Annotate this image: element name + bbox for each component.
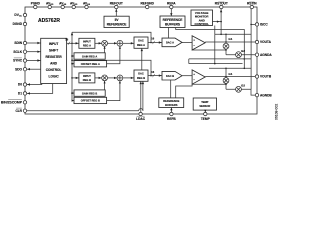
svg-text:16: 16 bbox=[151, 70, 154, 74]
svg-text:REFOUT: REFOUT bbox=[110, 2, 123, 6]
block U1 INPUT SHIFT REGISTER AND CONTROL LOGIC bbox=[41, 38, 67, 83]
block INPUT REG B bbox=[79, 73, 95, 83]
multiplier circle channel B bbox=[102, 75, 108, 81]
wire feedback tap channel B to amp inverting input bbox=[192, 83, 226, 85]
wire common data bus vertical rail with up arrow to readback line bbox=[71, 32, 73, 100]
pin AVDD (top, second) bbox=[72, 5, 75, 8]
wire AGNDA row bbox=[226, 54, 255, 56]
wire feedback tap channel A to amp inverting input bbox=[192, 49, 226, 51]
svg-text:OFFSET REG A: OFFSET REG A bbox=[81, 62, 100, 66]
wire adder to DAC REG B, arrow bbox=[123, 77, 134, 79]
svg-text:16: 16 bbox=[65, 37, 68, 41]
pin SDO (left) bbox=[23, 68, 26, 71]
block DAC REG B bbox=[134, 70, 148, 81]
wire amp B output row to VOUTB bbox=[205, 76, 255, 78]
svg-text:ISCC: ISCC bbox=[260, 23, 268, 27]
block INPUT REG A bbox=[79, 38, 95, 48]
pin DVCC (left) bbox=[23, 13, 26, 16]
wire 16-bit bus from shift register to INPUT REG A with slash and arrow bbox=[67, 42, 79, 44]
wire D1 from control logic, arrow toward pin bbox=[27, 84, 53, 94]
hop of CLR line over LDAC wire bbox=[139, 109, 143, 111]
svg-text:D0: D0 bbox=[18, 83, 22, 87]
pin VOUTA (right) bbox=[255, 40, 258, 43]
svg-text:SHIFT: SHIFT bbox=[49, 49, 58, 53]
wire amp A output row to VOUTA bbox=[205, 41, 255, 43]
svg-text:AVSS: AVSS bbox=[59, 2, 67, 7]
wire GAIN REG A up to multiplier, arrow up bbox=[104, 46, 106, 53]
svg-text:CLR: CLR bbox=[15, 109, 22, 113]
resistor G2 (channel A) bbox=[236, 52, 242, 58]
pin D0 (left) bbox=[23, 83, 26, 86]
wire CLR line along bottom to DAC REG B, arrow up bbox=[27, 110, 139, 112]
wire channel A top rail bbox=[215, 33, 252, 35]
svg-text:DAC: DAC bbox=[138, 39, 144, 43]
wire bus rail to INPUT REG B, arrow bbox=[72, 77, 79, 79]
svg-text:GAIN REG A: GAIN REG A bbox=[82, 54, 97, 58]
block VOLTAGE MONITOR AND CONTROL bbox=[191, 10, 213, 26]
wire LDAC up to DAC REG B, arrow up, with hop over CLR line bbox=[140, 81, 142, 112]
svg-text:G1: G1 bbox=[228, 72, 232, 76]
block OFFSET REG B bbox=[74, 97, 107, 103]
wire reference buffers to amp A positive network bbox=[176, 28, 245, 69]
wire adder to DAC REG A, arrow bbox=[123, 42, 134, 44]
DAC A symbol bbox=[162, 38, 182, 47]
block OFFSET REG A bbox=[74, 61, 107, 67]
svg-text:REFGND: REFGND bbox=[140, 2, 154, 6]
svg-text:PGND: PGND bbox=[31, 2, 41, 6]
svg-text:DAC A: DAC A bbox=[166, 40, 174, 44]
svg-text:SENSOR: SENSOR bbox=[199, 104, 210, 108]
block GAIN REG A bbox=[74, 53, 105, 59]
svg-text:REGISTER: REGISTER bbox=[45, 55, 62, 59]
wire readback line channel B over to DAC B bus bbox=[72, 60, 151, 75]
pin CLR (left) bbox=[23, 109, 26, 112]
pin TEMP (bottom) bbox=[204, 112, 207, 115]
svg-text:AGNDB: AGNDB bbox=[260, 93, 272, 97]
pin REFOUT (top) bbox=[115, 5, 118, 8]
wire REFB up into reference buffers B, arrow up bbox=[170, 108, 172, 113]
adder circle channel B bbox=[117, 75, 123, 81]
pin REFGND (top) bbox=[146, 5, 149, 8]
pin AVSS (top, first) bbox=[61, 5, 64, 8]
pin LDAC (bottom) bbox=[139, 112, 142, 115]
block TEMP SENSOR bbox=[193, 98, 216, 110]
wire bus rail to GAIN REG A, arrow bbox=[72, 55, 74, 57]
svg-text:SYNC: SYNC bbox=[13, 59, 23, 63]
svg-text:BUFFERS: BUFFERS bbox=[165, 22, 180, 26]
wire bus rail to OFFSET REG A, arrow bbox=[72, 63, 74, 65]
pin SCLK (left) bbox=[23, 50, 26, 53]
pin AGNDB (right) bbox=[255, 93, 258, 96]
svg-text:VOUTA: VOUTA bbox=[260, 40, 272, 44]
pin D1 (left) bbox=[23, 92, 26, 95]
wire reference buffers B up to DAC B bbox=[170, 80, 172, 98]
svg-text:REFA: REFA bbox=[167, 2, 176, 6]
pin PGND (top) bbox=[34, 5, 37, 8]
pin RSTOUT (top) bbox=[220, 5, 223, 8]
block REFERENCE BUFFERS (channel B, bottom) bbox=[159, 98, 184, 108]
pin BIN/2SCOMP (left) bbox=[23, 101, 26, 104]
svg-text:DVCC: DVCC bbox=[14, 13, 22, 18]
wire REFOUT to 5V reference with up arrow bbox=[115, 9, 117, 17]
resistor G1 (channel B) bbox=[225, 68, 227, 89]
svg-text:REFERENCE: REFERENCE bbox=[163, 99, 179, 103]
pin RSTIN (top) bbox=[250, 5, 253, 8]
svg-text:CONTROL: CONTROL bbox=[46, 68, 62, 72]
svg-text:AVDD: AVDD bbox=[70, 2, 78, 7]
wire D0 from control logic, arrow toward pin bbox=[27, 84, 42, 85]
wire monitor box to RSTOUT line bbox=[213, 21, 222, 23]
pin SDIN (left) bbox=[23, 41, 26, 44]
wire RSTOUT down to monitor rail, arrow up bbox=[220, 9, 222, 35]
DAC B symbol bbox=[162, 71, 182, 80]
svg-text:DAC B: DAC B bbox=[166, 74, 174, 78]
svg-text:VOUTB: VOUTB bbox=[260, 75, 272, 79]
svg-text:LOGIC: LOGIC bbox=[49, 75, 60, 79]
svg-text:SDIN: SDIN bbox=[14, 41, 22, 45]
wire multiplier to adder channel A, arrow bbox=[108, 42, 118, 44]
outer border of AD5762R block bbox=[25, 7, 257, 114]
svg-text:06108-002: 06108-002 bbox=[275, 104, 279, 120]
svg-text:INPUT: INPUT bbox=[83, 74, 91, 78]
pin AVSS (top, second) bbox=[85, 5, 88, 8]
svg-text:AND: AND bbox=[50, 62, 58, 66]
wire OFFSET REG B right and up to adder, arrow up bbox=[107, 81, 120, 101]
svg-text:REFERENCE: REFERENCE bbox=[107, 23, 127, 27]
wire reference buffers down to DAC A bbox=[168, 28, 170, 39]
wire INPUT REG A to multiplier, arrow bbox=[95, 42, 102, 44]
multiplier circle channel A bbox=[102, 40, 108, 46]
wire DAC B to amp B bbox=[182, 75, 192, 77]
svg-text:AVSS: AVSS bbox=[83, 2, 91, 7]
block GAIN REG B bbox=[74, 90, 105, 96]
wire SDIN to shift register, arrow right bbox=[27, 42, 41, 44]
wire TEMP sensor down to TEMP pin, arrow down bbox=[204, 110, 206, 112]
pin SYNC (left) bbox=[23, 59, 26, 62]
adder circle channel A bbox=[117, 40, 123, 46]
svg-text:D1: D1 bbox=[18, 92, 22, 96]
wire REFA to reference buffers with down arrow bbox=[170, 9, 172, 16]
op-amp B triangle bbox=[192, 70, 205, 84]
svg-text:GAIN REG B: GAIN REG B bbox=[82, 91, 98, 95]
wire OFFSET REG A right and up to adder, arrow up bbox=[107, 46, 120, 64]
wire bus rail to OFFSET REG B, arrow bbox=[72, 100, 74, 102]
wire channel B top rail bbox=[189, 58, 251, 60]
wire GAIN REG B up to multiplier, arrow up bbox=[104, 81, 106, 90]
block DAC REG A bbox=[134, 37, 148, 48]
svg-text:BIN/2SCOMP: BIN/2SCOMP bbox=[1, 101, 23, 105]
svg-text:LDAC: LDAC bbox=[136, 117, 146, 121]
svg-text:AD5762R: AD5762R bbox=[38, 18, 60, 24]
wire multiplier to adder channel B, arrow bbox=[108, 77, 118, 79]
svg-text:BUFFERS: BUFFERS bbox=[165, 103, 178, 107]
pin ISCC (right) bbox=[255, 23, 258, 26]
svg-text:REG A: REG A bbox=[83, 44, 91, 48]
svg-text:SDO: SDO bbox=[15, 67, 22, 71]
wire DAC A to amp A bbox=[182, 42, 192, 44]
wire bus rail to GAIN REG B, arrow bbox=[72, 92, 74, 94]
svg-text:CONTROL: CONTROL bbox=[195, 22, 210, 26]
svg-text:G2: G2 bbox=[241, 49, 245, 53]
svg-text:INPUT: INPUT bbox=[49, 42, 59, 46]
wire LDAC continuation from DAC REG B top to DAC REG A, arrow up bbox=[141, 48, 143, 70]
svg-text:SCLK: SCLK bbox=[13, 50, 22, 54]
block REFERENCE BUFFERS (channel A, top) bbox=[160, 16, 185, 28]
wire SYNC to shift register, arrow right bbox=[27, 60, 41, 62]
svg-text:REFERENCE: REFERENCE bbox=[163, 18, 183, 22]
svg-text:G2: G2 bbox=[241, 83, 245, 87]
svg-text:DGND: DGND bbox=[13, 22, 23, 26]
wire ISCC stub to RSTIN rail bbox=[251, 23, 255, 25]
svg-text:REG B: REG B bbox=[83, 78, 91, 82]
pin REFA (top) bbox=[170, 5, 173, 8]
svg-text:REFB: REFB bbox=[167, 117, 176, 121]
wire DAC REG B to DAC B, 16-bit slash, arrow bbox=[148, 75, 162, 77]
pin REFB (bottom) bbox=[170, 112, 173, 115]
block 5V REFERENCE bbox=[104, 16, 129, 27]
resistor G2 (channel B) bbox=[236, 86, 242, 92]
wire RSTIN down the right side bbox=[250, 9, 252, 90]
wire AGNDB row with jog to pin bbox=[226, 89, 255, 95]
svg-text:16: 16 bbox=[151, 37, 154, 41]
svg-text:REG A: REG A bbox=[137, 43, 145, 47]
svg-text:OFFSET REG B: OFFSET REG B bbox=[81, 99, 100, 103]
svg-text:TEMP: TEMP bbox=[201, 100, 208, 104]
svg-text:INPUT: INPUT bbox=[83, 40, 91, 44]
svg-text:G1: G1 bbox=[228, 37, 232, 41]
wire INPUT REG B to multiplier, arrow bbox=[95, 77, 102, 79]
wire monitor outputs down to channel A rail bbox=[214, 26, 216, 35]
pin DGND (left) bbox=[23, 22, 26, 25]
pin AGNDA (right) bbox=[255, 53, 258, 56]
op-amp A triangle bbox=[192, 36, 205, 50]
svg-text:REG B: REG B bbox=[137, 76, 145, 80]
resistor G1 (channel A) bbox=[225, 34, 227, 54]
svg-text:TEMP: TEMP bbox=[201, 117, 211, 121]
wire readback line channel A over to DAC A bus bbox=[72, 32, 151, 42]
wire DAC REG A to DAC A, 16-bit slash, arrow bbox=[148, 42, 162, 44]
svg-text:DAC: DAC bbox=[138, 72, 144, 76]
pin VOUTB (right) bbox=[255, 75, 258, 78]
pin AVDD (top, first) bbox=[48, 5, 51, 8]
svg-text:AGNDA: AGNDA bbox=[260, 53, 272, 57]
svg-text:AVDD: AVDD bbox=[46, 2, 54, 7]
node bus junction at channel A row bbox=[71, 43, 73, 45]
wire reference buffers B to amp B positive network bbox=[176, 84, 192, 98]
wire SDO from shift register, arrow toward pin bbox=[27, 68, 41, 70]
wire SCLK to shift register, arrow right bbox=[27, 51, 41, 53]
